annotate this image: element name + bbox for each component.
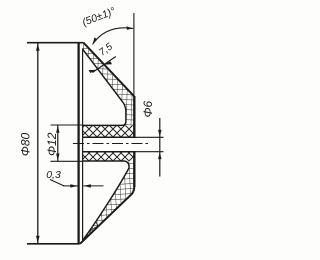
angle extension line vertical — [133, 13, 135, 97]
arrow phi12 bottom — [56, 154, 59, 161]
disc wall left line — [77, 43, 79, 244]
hub lower band hatch — [83, 152, 135, 161]
extension line phi12 bottom — [51, 160, 83, 162]
lower band tip hatch ticks — [85, 222, 98, 238]
extension line top (phi80) — [27, 42, 84, 44]
dimension line 7.5 across cone wall — [92, 57, 115, 73]
hub upper band hatch — [83, 125, 135, 137]
arrow phi12 top — [56, 125, 59, 132]
arrow 0.3 right — [83, 184, 91, 187]
svg-text:Φ80: Φ80 — [19, 132, 33, 156]
cone upper band hatch — [83, 43, 135, 126]
dimension line phi80 — [37, 43, 39, 243]
extension line bottom (phi80) — [27, 243, 80, 245]
cone inner edge upper with fillet to hub — [83, 49, 126, 125]
hub bottom edge and inner edge lower with fillet — [83, 161, 129, 240]
dimension line phi6 — [159, 118, 161, 177]
angle dimension arc — [93, 28, 134, 45]
hole bottom line — [83, 151, 136, 153]
arrow 7.5 lower — [89, 70, 97, 73]
extension line phi6 top — [136, 136, 164, 138]
svg-text:Φ12: Φ12 — [45, 132, 59, 156]
hole top line — [83, 136, 136, 138]
leader line 0.3 — [50, 180, 64, 186]
svg-text:0,3: 0,3 — [46, 169, 61, 181]
arrow phi80 top — [36, 43, 40, 51]
disc wall right line — [82, 49, 84, 241]
cone outer edge upper — [84, 43, 135, 97]
dimension line 0.3 right — [83, 185, 103, 187]
hub right face lower — [133, 151, 135, 187]
arrow 0.3 left — [70, 184, 78, 187]
arrow phi6 top — [158, 130, 161, 137]
extension line phi6 bottom — [136, 151, 164, 153]
svg-text:Φ6: Φ6 — [141, 100, 155, 117]
arrow angle left on cone surface — [93, 37, 98, 44]
cone outer edge lower — [80, 186, 134, 244]
arrow phi80 bottom — [36, 236, 40, 244]
cone lower band hatch — [80, 161, 134, 244]
centerline axis dash-dot — [73, 143, 150, 145]
extension line phi12 top — [51, 124, 83, 126]
arrow angle right on vertical line — [126, 26, 133, 30]
dimension line phi12 — [57, 125, 59, 161]
dimension line 0.3 left — [63, 185, 78, 187]
hub right face upper — [133, 96, 135, 138]
arrow 7.5 upper — [104, 61, 112, 64]
arrow phi6 bottom — [158, 152, 161, 159]
